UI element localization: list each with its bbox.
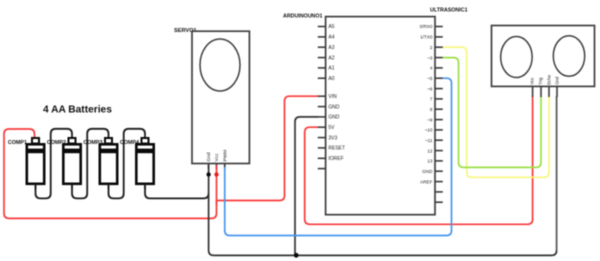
- servo SERVO1 body: [192, 31, 249, 163]
- wire: ground net servo Gnd down and along bottom (black): [209, 165, 557, 255]
- ultrasonic right transducer: [553, 36, 584, 77]
- svg-text:Echo: Echo: [546, 74, 551, 84]
- svg-text:A4: A4: [328, 35, 334, 41]
- svg-text:0/RX0: 0/RX0: [420, 24, 433, 29]
- svg-text:Vcc: Vcc: [214, 153, 220, 162]
- svg-text:1/TX0: 1/TX0: [420, 35, 433, 40]
- servo U-label SERVO1: [174, 28, 197, 34]
- svg-text:A5: A5: [328, 24, 334, 30]
- battery COMP4: [120, 138, 154, 189]
- op board ARDUINOUNO1 body: [326, 17, 435, 215]
- battery COMP2: [47, 138, 81, 189]
- svg-text:A3: A3: [328, 45, 334, 51]
- svg-text:AREF: AREF: [420, 179, 432, 184]
- svg-text:GND: GND: [422, 169, 433, 174]
- wire: Arduino 5V to ultrasonic Vcc (red): [305, 96, 533, 224]
- svg-text:GND: GND: [328, 115, 340, 121]
- servo horn circle: [200, 39, 240, 91]
- svg-text:GND: GND: [328, 104, 340, 110]
- arduino right pin ticks: [435, 27, 443, 203]
- battery COMP1: [8, 138, 44, 189]
- servo pin stubs: [209, 164, 225, 170]
- svg-text:PWM: PWM: [223, 150, 229, 162]
- svg-text:~3: ~3: [427, 55, 433, 60]
- svg-text:VIN: VIN: [328, 94, 337, 100]
- ultrasonic left transducer: [501, 37, 533, 78]
- svg-text:A0: A0: [328, 76, 334, 82]
- svg-text:IOREF: IOREF: [328, 156, 343, 162]
- svg-text:~10: ~10: [425, 128, 433, 133]
- wire: Arduino pin3 to ultrasonic Trig (green): [443, 58, 541, 168]
- wire: Arduino GND to bottom ground rail (black): [295, 117, 318, 256]
- svg-text:ULTRASONIC1: ULTRASONIC1: [430, 8, 468, 14]
- ultrasonic label ULTRASONIC1: [430, 8, 468, 14]
- arduino left pin labels: [328, 24, 345, 162]
- svg-text:Trig: Trig: [538, 77, 543, 85]
- wire: COMP2 negative to COMP3 positive (black series loop): [72, 129, 109, 199]
- ultrasonic ULTRASONIC1 body: [492, 26, 595, 87]
- svg-text:3V3: 3V3: [328, 135, 337, 141]
- junction dot on servo Gnd pin: [206, 172, 210, 176]
- wire: Arduino pin5 to servo PWM (blue): [225, 78, 452, 235]
- svg-text:Vcc: Vcc: [529, 77, 534, 85]
- svg-text:A2: A2: [328, 55, 334, 61]
- junction dot on bottom ground rail: [294, 253, 299, 258]
- ultrasonic pin stubs: [533, 86, 557, 97]
- wire: Arduino pin2 to ultrasonic Echo (yellow): [443, 47, 549, 177]
- svg-text:~5: ~5: [427, 76, 433, 81]
- svg-text:2: 2: [430, 45, 433, 50]
- servo pin label Gnd: [206, 152, 212, 161]
- svg-text:A1: A1: [328, 66, 334, 72]
- ultrasonic pin label Echo: [546, 74, 551, 84]
- svg-text:ARDUINOUNO1: ARDUINOUNO1: [283, 13, 322, 19]
- wire: COMP3 negative to COMP4 positive (black series loop): [109, 129, 146, 199]
- wire: ultrasonic Gnd vertical (grey): [556, 96, 558, 251]
- svg-text:7: 7: [430, 97, 433, 102]
- wire: servo Vcc vertical (red): [216, 165, 218, 205]
- wire: servo Vcc to Arduino VIN (red): [217, 96, 319, 200]
- svg-text:COMP1: COMP1: [8, 140, 27, 146]
- junction dot on servo Vcc pin: [214, 172, 218, 176]
- svg-text:Gnd: Gnd: [554, 76, 559, 85]
- svg-text:4: 4: [430, 66, 433, 71]
- battery COMP3: [83, 138, 117, 189]
- svg-text:RESET: RESET: [328, 146, 345, 152]
- servo pin label PWM: [223, 150, 229, 162]
- arduino left pin ticks: [318, 27, 326, 169]
- servo pin label Vcc: [214, 153, 220, 162]
- ultrasonic pin label Vcc: [529, 77, 534, 85]
- wire: COMP4 negative to servo Gnd (black): [145, 185, 209, 199]
- svg-text:5V: 5V: [328, 125, 335, 131]
- ultrasonic pin label Gnd: [554, 76, 559, 85]
- svg-text:~9: ~9: [427, 117, 433, 122]
- svg-text:Gnd: Gnd: [206, 152, 212, 161]
- svg-text:8: 8: [430, 107, 433, 112]
- svg-text:~11: ~11: [425, 138, 433, 143]
- svg-text:13: 13: [427, 159, 433, 164]
- svg-text:4 AA Batteries: 4 AA Batteries: [43, 105, 112, 116]
- ultrasonic pin label Trig: [538, 77, 543, 85]
- svg-text:12: 12: [427, 148, 433, 153]
- arduino right pin labels: [420, 24, 433, 184]
- wire: COMP1 negative to COMP2 positive (black series loop): [36, 129, 73, 199]
- svg-text:~6: ~6: [427, 86, 433, 91]
- label: 4 AA Batteries: [43, 105, 112, 116]
- wire: battery positive COMP1 to servo Vcc (red loop): [4, 129, 217, 218]
- arduino label ARDUINOUNO1: [283, 13, 322, 19]
